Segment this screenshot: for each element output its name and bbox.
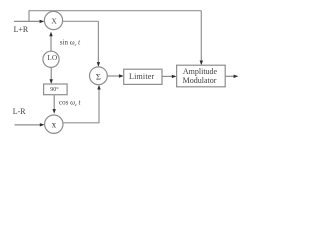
wire modulated output	[225, 75, 234, 77]
svg-text:sin ωc t: sin ωc t	[60, 39, 81, 47]
wire summer to limiter	[107, 75, 119, 77]
svg-text:X: X	[51, 17, 57, 26]
svg-text:LO: LO	[47, 54, 57, 62]
limiter block	[124, 69, 162, 84]
svg-text:cos ωc t: cos ωc t	[59, 99, 81, 107]
svg-text:90°: 90°	[50, 86, 59, 93]
svg-text:L+R: L+R	[14, 25, 29, 34]
wire LO to 90-degree phase shifter	[50, 67, 52, 79]
node tap junction on L+R line	[28, 11, 30, 22]
wire LO to multiplier X1	[50, 36, 52, 51]
svg-text:L-R: L-R	[13, 107, 26, 116]
wire limiter to amplitude modulator	[162, 75, 172, 77]
multiplier X1 (top balanced modulator)	[44, 11, 62, 29]
wire X2 output to summer	[63, 122, 99, 124]
wire 90-degree shifter to multiplier X2	[53, 95, 55, 109]
summer U1	[90, 67, 108, 85]
oscillator LO	[43, 51, 59, 67]
svg-text:Modulator: Modulator	[183, 76, 217, 85]
wire envelope path top horizontal	[29, 10, 202, 12]
phase shifter 90 degrees	[44, 84, 68, 95]
wire L-R input to multiplier X2	[15, 124, 41, 126]
multiplier X2 (bottom balanced modulator)	[45, 115, 63, 133]
wire L+R input to multiplier X1	[14, 20, 40, 22]
svg-text:Amplitude: Amplitude	[183, 67, 218, 76]
wire X1 output to summer	[63, 20, 99, 22]
svg-text:Σ: Σ	[96, 71, 101, 81]
amplitude modulator block	[177, 65, 226, 87]
svg-text:x: x	[52, 119, 57, 129]
svg-text:Limiter: Limiter	[129, 72, 155, 81]
wire envelope path down to amplitude modulator	[200, 11, 202, 62]
